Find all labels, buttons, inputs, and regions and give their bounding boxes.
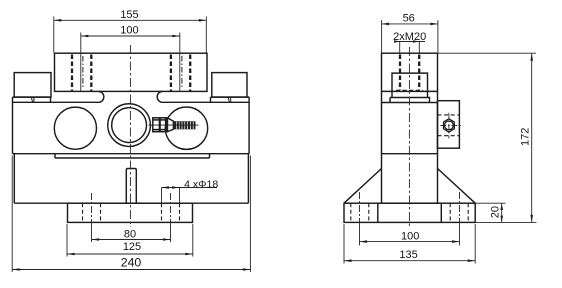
step vertical right — [210, 97, 212, 102]
arrow 125 right — [185, 253, 193, 256]
base flange — [344, 203, 475, 222]
arrow 56 left — [382, 23, 390, 26]
hex nut on cable box — [444, 119, 455, 132]
dim 240 extension left — [11, 156, 13, 273]
foot hole left hidden lines — [83, 203, 101, 222]
dim 2xM20 extension left — [399, 42, 401, 54]
lower block bottom — [14, 202, 248, 204]
dim 125 extension left — [66, 224, 68, 257]
center circle inner — [112, 108, 147, 143]
side view boss — [392, 73, 428, 97]
arrow 172 bottom — [530, 215, 533, 223]
svg-text:56: 56 — [403, 13, 415, 25]
dim 125 extension right — [192, 224, 194, 257]
dimension texts — [120, 9, 531, 269]
arrow 100 side right — [452, 240, 460, 243]
arrow 2xM20 right — [413, 40, 419, 42]
right ear — [212, 73, 247, 98]
base pad edge left — [377, 203, 379, 222]
arrow 155 left — [54, 19, 62, 22]
svg-text:135: 135 — [399, 249, 417, 261]
cable box dashed lines — [438, 115, 460, 136]
body top / slot bottom line right — [163, 101, 250, 103]
arrow 4xD18 right — [172, 186, 180, 189]
right slot rounded end — [157, 91, 162, 102]
arrow 135 right — [468, 259, 476, 262]
dim 135 line — [344, 260, 475, 262]
left circle — [54, 107, 96, 149]
arrow 4xD18 left — [162, 186, 170, 189]
base hole hidden lines right — [450, 203, 468, 222]
dim 56 extension right — [437, 20, 439, 53]
hex nut centerlines — [440, 113, 462, 139]
right ear tick marks — [228, 97, 231, 102]
dim 155 line — [54, 19, 207, 21]
dim 56 extension left — [381, 20, 383, 53]
ear seat line right — [211, 96, 250, 98]
side view M20 hidden hole lines — [400, 55, 419, 91]
cable gland nut 2 — [160, 118, 166, 132]
dim 80 line — [92, 239, 171, 241]
arrow 172 top — [530, 53, 533, 61]
side view body top line — [382, 102, 438, 104]
svg-text:172: 172 — [520, 128, 532, 146]
side base hole centerline left — [359, 192, 361, 222]
cable entry box — [438, 101, 460, 149]
dim 240 extension right — [249, 156, 251, 273]
threaded cable rod — [173, 121, 195, 129]
arrow 240 right — [243, 268, 251, 271]
lower block left edge — [13, 154, 15, 204]
side view boss flange — [390, 98, 430, 103]
foot pad — [68, 203, 193, 222]
dim 4xD18 leader line — [162, 187, 218, 189]
svg-text:100: 100 — [120, 25, 138, 37]
dim 172 line — [531, 53, 533, 222]
right skirt diagonal — [438, 169, 476, 204]
left foot hole centerline — [91, 193, 93, 222]
dim 135 extension right — [474, 224, 476, 264]
svg-text:2xM20: 2xM20 — [393, 31, 426, 43]
lower block right edge — [247, 154, 249, 204]
right circle — [165, 107, 207, 149]
groove left vertical — [54, 154, 56, 158]
foot hole right hidden lines — [162, 203, 180, 222]
dim 240 line — [12, 269, 250, 271]
body top / slot bottom line left — [13, 101, 99, 103]
gland centerline — [149, 124, 199, 126]
svg-text:4 xΦ18: 4 xΦ18 — [184, 179, 218, 191]
dim 2xM20 extension right — [418, 42, 420, 54]
arrow 2xM20 left — [394, 40, 400, 42]
side view column outline — [382, 53, 438, 203]
arrow 80 left — [92, 238, 100, 241]
dim 100 side line — [360, 241, 460, 243]
dim 100 line — [81, 35, 180, 37]
base pad edge right — [440, 203, 442, 222]
body right edge — [248, 97, 250, 154]
dim 125 line — [67, 253, 193, 255]
dim 4xD18 extension left — [161, 188, 163, 204]
arrow 100 side left — [360, 240, 368, 243]
arrow 80 right — [163, 238, 171, 241]
left ear — [14, 73, 51, 98]
side view plate bottom line — [382, 90, 438, 92]
side view centerline — [408, 47, 410, 227]
arrow 135 left — [344, 259, 352, 262]
arrow 155 right — [199, 19, 207, 22]
dim 56 line — [382, 23, 438, 25]
arrow 56 right — [430, 23, 438, 26]
step vertical left — [50, 97, 52, 102]
svg-text:80: 80 — [124, 228, 136, 240]
cable gland nut 1 — [153, 118, 160, 132]
svg-text:125: 125 — [123, 241, 141, 253]
cable gland cone — [167, 118, 173, 132]
top plate hole right centerline — [181, 56, 183, 89]
svg-text:240: 240 — [121, 255, 142, 269]
right foot hole centerline — [170, 193, 172, 222]
left view main centerline — [129, 45, 131, 227]
arrow 240 left — [12, 268, 20, 271]
base hole hidden lines left — [351, 203, 369, 222]
arrow 125 left — [67, 253, 75, 256]
top plate hole right (hidden lines) — [171, 55, 190, 92]
left skirt diagonal — [344, 169, 382, 204]
arrow 100 right — [172, 35, 180, 38]
center stub — [126, 169, 136, 204]
arrow 20 top — [500, 203, 503, 210]
arrow 100 left — [81, 35, 89, 38]
groove bottom line — [55, 157, 210, 159]
groove right vertical — [209, 154, 211, 158]
svg-text:155: 155 — [120, 9, 138, 21]
left ear tick marks — [31, 97, 34, 102]
dim 20 extension top — [475, 202, 505, 204]
dim 4xD18 extension right — [179, 188, 181, 204]
dim 155 extension right — [205, 17, 207, 53]
dim 2xM20 line — [394, 41, 425, 43]
svg-text:100: 100 — [401, 231, 419, 243]
dim 155 extension left — [53, 17, 55, 53]
dim 172 extension top — [438, 52, 537, 54]
ear seat line left — [13, 96, 51, 98]
dim 20 line — [501, 203, 503, 222]
body bottom line — [13, 153, 250, 155]
top plate hole left centerline — [82, 56, 84, 89]
side view mid line — [382, 153, 438, 155]
side view hole bottom hidden line — [396, 89, 423, 91]
top plate hole left (hidden lines) — [72, 55, 91, 92]
side base hole centerline right — [459, 192, 461, 222]
dim 100 extension right — [179, 33, 181, 92]
dim 100 extension left — [80, 33, 82, 92]
arrow 20 bottom — [500, 216, 503, 223]
body left edge — [12, 97, 14, 154]
dim 20 extension bottom — [475, 221, 536, 223]
center circle outer — [108, 104, 151, 147]
svg-text:20: 20 — [489, 206, 501, 218]
dim 135 extension left — [343, 224, 345, 264]
left slot rounded end — [98, 91, 103, 102]
top plate — [55, 53, 208, 91]
cable gland dark band — [166, 118, 168, 132]
